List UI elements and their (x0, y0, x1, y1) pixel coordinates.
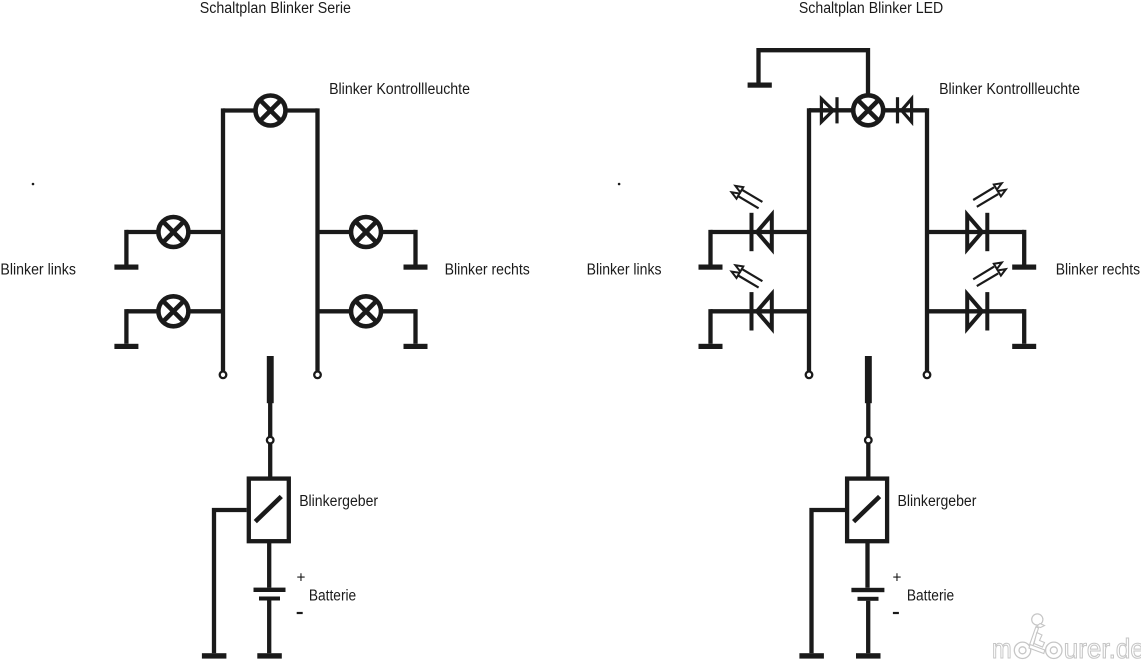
ground top (748, 83, 772, 88)
ground row2 right (404, 309, 428, 349)
wire node to relay box LED (866, 444, 870, 477)
lamp right rear (351, 296, 381, 326)
lamp control LED diagram (853, 95, 883, 125)
relay diagonal contact (255, 497, 281, 522)
svg-text:Blinker links: Blinker links (0, 262, 76, 279)
svg-text:+: + (893, 570, 902, 587)
LED right front (967, 183, 1006, 251)
wire row2 left LED (711, 309, 810, 313)
battery plate positive LED (851, 588, 884, 592)
ground row1 left LED (699, 230, 723, 270)
wire switch to node LED (866, 403, 870, 437)
svg-text:Schaltplan Blinker LED: Schaltplan Blinker LED (799, 0, 943, 17)
wire main right vertical LED (925, 108, 929, 371)
label minus LED (893, 612, 899, 614)
wire row1 right LED (927, 230, 1024, 234)
ground bottom left LED (799, 653, 824, 658)
diode right of control lamp (902, 99, 912, 122)
lamp left rear (158, 296, 188, 326)
node circle switch LED (865, 437, 872, 444)
wire main left vertical (221, 108, 225, 371)
wire node to relay box (268, 444, 272, 477)
switch lever bar LED (865, 356, 872, 403)
battery plate negative (259, 597, 280, 601)
battery plate positive (254, 588, 286, 592)
wire row2 right (318, 309, 416, 313)
relay box Blinkergeber LED (847, 479, 887, 542)
wire row2 right LED (927, 309, 1024, 313)
ground bottom left (202, 653, 227, 658)
ground bottom battery LED (856, 653, 881, 658)
svg-text:Blinker links: Blinker links (587, 262, 662, 279)
LED right rear (967, 263, 1006, 331)
lamp control left diagram (256, 96, 286, 126)
wire row1 right (318, 230, 416, 234)
svg-text:Blinker rechts: Blinker rechts (445, 262, 531, 279)
svg-text:Blinker rechts: Blinker rechts (1056, 262, 1141, 279)
watermark motourer.de (992, 614, 1141, 660)
svg-text:urer.de: urer.de (1064, 633, 1141, 660)
ground bottom battery (257, 653, 282, 658)
terminal right (314, 372, 321, 379)
wire box left branch (214, 510, 247, 653)
stray dot left (32, 183, 35, 186)
wire control row (809, 108, 927, 112)
svg-text:Batterie: Batterie (907, 587, 954, 604)
svg-text:Blinkergeber: Blinkergeber (299, 493, 378, 510)
svg-text:Batterie: Batterie (309, 587, 356, 604)
wire box to battery LED (865, 543, 869, 588)
ground row2 right LED (1012, 309, 1036, 349)
lamp right front (351, 217, 381, 247)
switch lever bar (267, 356, 274, 403)
stray dot right (618, 183, 621, 186)
wire main left vertical LED (807, 108, 811, 371)
svg-text:Blinkergeber: Blinkergeber (898, 493, 977, 510)
svg-text:Blinker Kontrollleuchte: Blinker Kontrollleuchte (329, 81, 470, 98)
wire battery to ground (267, 601, 271, 654)
svg-text:Schaltplan Blinker Serie: Schaltplan Blinker Serie (200, 0, 351, 17)
svg-text:+: + (297, 570, 306, 587)
terminal left LED (806, 372, 813, 379)
ground row1 right LED (1012, 230, 1036, 270)
svg-text:m: m (992, 633, 1012, 660)
relay box Blinkergeber (249, 479, 289, 542)
terminal left (220, 372, 227, 379)
wire switch to node (268, 403, 272, 437)
wire row2 left (126, 309, 223, 313)
lamp left front (158, 217, 188, 247)
wire battery to ground LED (866, 601, 870, 653)
wire row1 left (126, 230, 223, 234)
battery plate negative LED (858, 597, 879, 601)
relay diagonal contact LED (854, 497, 880, 522)
wire box left branch LED (812, 510, 846, 653)
terminal right LED (924, 372, 931, 379)
LED left front (732, 186, 772, 251)
ground row1 left (114, 230, 138, 270)
ground row2 left (114, 309, 138, 349)
wire box to battery (267, 543, 271, 588)
label minus (297, 612, 303, 614)
wire main right vertical (315, 108, 319, 371)
wire top horizontal left diagram (223, 108, 318, 112)
wire row1 left LED (711, 230, 810, 234)
wire top ground run (759, 50, 869, 95)
diode left of control lamp (821, 99, 833, 122)
svg-text:Blinker Kontrollleuchte: Blinker Kontrollleuchte (939, 81, 1080, 98)
LED left rear (732, 265, 772, 330)
node circle switch (267, 437, 274, 444)
ground row2 left LED (699, 309, 723, 349)
ground row1 right (404, 230, 428, 270)
